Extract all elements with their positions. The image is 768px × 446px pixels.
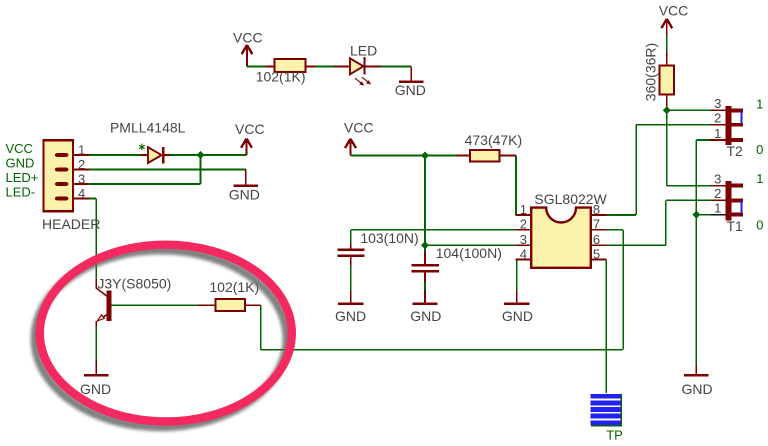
wire below C2 [424,273,426,282]
svg-text:1: 1 [520,202,527,217]
wire (pin of R) [266,66,274,68]
T2 stub 3 [732,109,743,113]
svg-text:LED-: LED- [6,184,36,199]
vcc symbol VCC (mid rail) [344,120,374,156]
LED D (diode LED) [350,43,377,75]
wire row4 down to Q1 [95,199,97,280]
svg-text:VCC: VCC [659,3,689,19]
T1 stub 2 [732,199,743,203]
svg-text:0: 0 [756,217,763,232]
svg-text:2: 2 [714,111,721,126]
wire row2 [89,169,246,171]
wire [247,66,266,68]
svg-text:2: 2 [714,186,721,201]
U1 pin 4 stub [516,259,531,261]
connector T2 bar [725,106,731,145]
wire row1 [89,154,140,156]
ground (top LED) [395,67,426,99]
svg-text:102(1K): 102(1K) [256,69,306,85]
wire down [260,305,262,349]
node junction (below R) [663,106,671,114]
wire pin2 row [351,229,516,231]
svg-text:T1: T1 [727,218,744,234]
U1 pin 3 stub [516,244,531,246]
svg-text:LED+: LED+ [6,170,39,185]
LED emission arrow 1 [355,78,364,85]
wire emitter down [95,321,97,327]
wire VCC down [424,156,426,246]
U1 pin 8 stub [591,214,606,216]
wire base [112,304,198,306]
transistor Q1 collector diagonal [96,288,107,296]
wire pin7 down to bottom run [607,229,624,231]
wire pin3 stub [74,183,89,185]
svg-text:VCC: VCC [235,121,265,137]
highlight ellipse shadow [35,250,287,427]
T1 pin3 wire [710,185,725,187]
svg-text:104(100N): 104(100N) [436,245,502,261]
wire pin8 to T2.2 [607,214,637,216]
test point TP [591,394,623,443]
node junction (cap node) [421,241,429,249]
ground (right) [681,365,712,397]
svg-text:LED: LED [350,43,377,59]
diode D1 PMLL4148L [110,119,186,163]
wire (anode pin) [335,66,350,68]
wire below C1 [350,257,352,266]
capacitor C1 103(10N) [337,230,418,257]
header pad pin3 [55,182,68,186]
wire [381,66,411,68]
svg-text:6: 6 [593,232,600,247]
T2 pin3 wire [710,109,725,111]
svg-text:GND: GND [395,82,426,98]
header pad pin2 [55,168,68,172]
wire [351,155,456,157]
highlight ellipse pink [40,245,292,422]
node junction (diode out) [197,151,205,159]
wire [315,66,335,68]
wire to T2.3 [667,109,711,111]
op-amp U1 SGL8022W body [531,191,607,268]
svg-text:7: 7 [593,217,600,232]
vcc symbol VCC (header) [235,121,265,155]
svg-text:360(36R): 360(36R) [643,43,659,101]
transistor Q1 base bar [106,290,111,321]
transistor Q1 emitter arrow [97,315,104,321]
svg-text:3: 3 [520,232,527,247]
svg-text:GND: GND [80,381,111,397]
svg-text:1: 1 [714,126,721,141]
wire junction down [695,215,697,365]
svg-text:3: 3 [714,172,721,187]
LED emission arrow 2 [362,77,371,84]
wire row3 [89,183,201,185]
svg-text:3: 3 [714,96,721,111]
resistor 102(1K) top [256,59,306,84]
svg-text:1: 1 [714,201,721,216]
connector T1 bar [725,181,731,220]
ground (Q1 emitter) [80,360,111,397]
svg-text:VCC: VCC [6,141,33,156]
svg-text:0: 0 [756,142,763,157]
wire junction to T1.1 [696,214,711,216]
node junction (VCC mid) [421,152,429,160]
header pad pin4 [55,197,68,201]
resistor 473(47K) [465,132,523,162]
T1 pin2 wire [710,199,725,201]
T2 pin2 wire [710,124,725,126]
wire row4 [89,198,96,200]
asterisk mark [139,144,145,151]
svg-text:GND: GND [335,308,366,324]
wire [499,155,516,157]
wire pin3 row from junction [425,244,516,246]
svg-text:4: 4 [520,246,527,261]
wire down to C2 [424,245,426,251]
svg-text:J3Y(S8050): J3Y(S8050) [97,276,171,292]
ground (C2) [410,291,441,324]
wire VCC down [666,110,668,186]
svg-text:2: 2 [520,217,527,232]
wire [456,155,470,157]
svg-text:GND: GND [681,381,712,397]
svg-text:T2: T2 [727,143,744,159]
svg-text:HEADER: HEADER [42,216,100,232]
wire T2.1 down to GND junction [695,140,697,215]
vcc symbol VCC (top-left LED rail) [233,29,263,66]
header pad pin1 [55,153,68,157]
resistor 102(1K) base [209,279,259,311]
svg-text:GND: GND [229,186,260,202]
transistor Q1 emitter diagonal [101,314,107,319]
wire down to pin1 [515,156,517,216]
svg-text:1: 1 [756,97,763,112]
svg-text:8: 8 [593,202,600,217]
U1 pin 2 stub [516,229,531,231]
wire pin2 stub [74,169,89,171]
svg-text:PMLL4148L: PMLL4148L [110,119,186,135]
wire pin6 to T1.2 [607,244,666,246]
svg-text:GND: GND [502,308,533,324]
wire [245,304,261,306]
svg-text:VCC: VCC [233,29,263,45]
ground (header GND) [229,170,260,203]
T1 stub 3 [732,184,743,188]
wire pin4 stub [74,198,89,200]
wire pin5 down to TP [605,260,607,394]
svg-text:GND: GND [6,155,35,170]
ground (IC pin4) [502,291,533,324]
T2 stub 1 [732,138,743,142]
U1 pin 6 stub [591,244,606,246]
wire [170,154,247,156]
T2 blue jumper [740,111,742,123]
T1 stub 1 [732,213,743,217]
node junction (GND net) [692,211,700,219]
transistor Q1 J3Y(S8050) collector wire [95,279,97,289]
wire down to C1 [350,230,352,244]
U1 pin 5 stub [591,259,606,261]
T1 blue jumper [740,201,742,213]
resistor 360(36R) [643,43,675,101]
svg-text:GND: GND [410,308,441,324]
svg-text:1: 1 [756,171,763,186]
U1 pin 1 stub [516,214,531,216]
header J1 HEADER body [42,140,100,232]
svg-text:VCC: VCC [344,120,374,136]
U1 pin 7 stub [591,229,606,231]
wire long bottom run to pin7 [261,349,624,351]
wire row3 up [200,155,202,184]
svg-text:473(47K): 473(47K) [465,132,523,148]
wire [306,66,315,68]
wire [366,66,381,68]
svg-text:103(10N): 103(10N) [360,230,418,246]
ground (C1) [335,291,366,324]
wire to T1.3 [667,185,711,187]
capacitor C2 104(100N) [412,245,502,272]
wire [666,95,668,111]
svg-text:TP: TP [606,428,623,443]
T2 stub 2 [732,123,743,127]
svg-text:5: 5 [593,246,600,261]
wire pin4 down [516,260,518,291]
vcc symbol VCC (right rail) [659,3,689,51]
wire [666,35,668,51]
wire pin1 stub [74,154,89,156]
T2 pin1 wire [696,139,710,141]
wire base pin [198,304,215,306]
